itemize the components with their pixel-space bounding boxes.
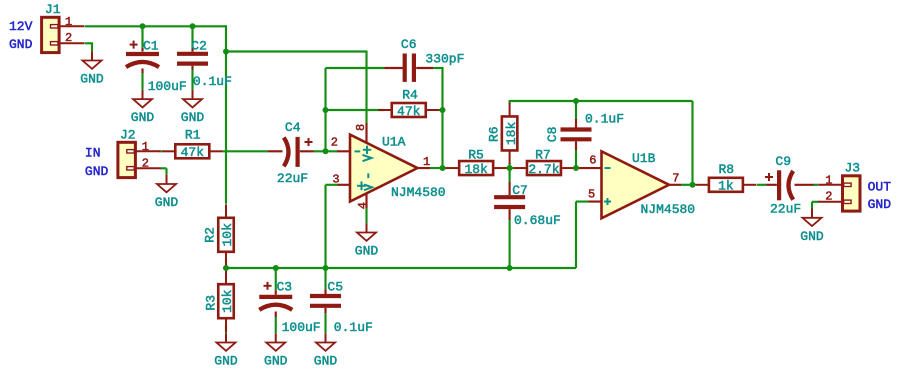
svg-text:U1B: U1B	[632, 151, 656, 166]
svg-text:GND: GND	[155, 195, 179, 210]
svg-text:0.1uF: 0.1uF	[334, 320, 373, 335]
svg-text:7: 7	[672, 172, 679, 186]
svg-text:12V: 12V	[9, 19, 33, 34]
svg-text:47k: 47k	[397, 104, 421, 119]
svg-text:2: 2	[331, 136, 338, 150]
svg-text:GND: GND	[214, 354, 238, 369]
svg-text:GND: GND	[355, 244, 379, 259]
svg-text:J3: J3	[845, 161, 861, 176]
svg-text:R6: R6	[487, 126, 502, 142]
svg-text:0.68uF: 0.68uF	[514, 213, 561, 228]
svg-text:2: 2	[65, 31, 72, 45]
svg-text:GND: GND	[314, 354, 338, 369]
svg-text:C2: C2	[191, 38, 207, 53]
svg-text:GND: GND	[800, 229, 824, 244]
svg-text:10k: 10k	[220, 289, 235, 313]
svg-text:2: 2	[142, 156, 149, 170]
svg-text:0.1uF: 0.1uF	[585, 112, 624, 127]
svg-text:GND: GND	[131, 110, 155, 125]
svg-text:GND: GND	[85, 164, 109, 179]
svg-text:R4: R4	[402, 87, 418, 102]
svg-text:NJM4580: NJM4580	[641, 202, 696, 217]
svg-text:C6: C6	[401, 37, 417, 52]
svg-text:J2: J2	[120, 127, 136, 142]
svg-text:0.1uF: 0.1uF	[193, 74, 232, 89]
svg-text:1: 1	[423, 155, 430, 169]
svg-text:3: 3	[332, 172, 339, 186]
svg-text:R2: R2	[203, 227, 218, 243]
svg-text:R3: R3	[204, 295, 219, 311]
svg-text:OUT: OUT	[868, 179, 892, 194]
svg-text:C1: C1	[143, 38, 159, 53]
svg-text:1k: 1k	[718, 179, 734, 194]
svg-text:R5: R5	[468, 148, 484, 163]
svg-text:2: 2	[825, 190, 832, 204]
svg-text:330pF: 330pF	[425, 51, 464, 66]
svg-text:R8: R8	[719, 162, 735, 177]
svg-text:C9: C9	[775, 154, 791, 169]
svg-text:GND: GND	[868, 197, 892, 212]
svg-text:NJM4580: NJM4580	[391, 185, 446, 200]
svg-text:2.7k: 2.7k	[528, 162, 559, 177]
svg-text:6: 6	[589, 153, 596, 167]
svg-text:GND: GND	[80, 72, 104, 87]
svg-text:GND: GND	[9, 37, 33, 52]
svg-text:22uF: 22uF	[277, 171, 308, 186]
svg-text:C4: C4	[285, 120, 301, 135]
svg-text:IN: IN	[85, 146, 101, 161]
svg-text:5: 5	[588, 188, 595, 202]
svg-text:1: 1	[825, 173, 832, 187]
svg-text:18k: 18k	[464, 162, 488, 177]
svg-text:47k: 47k	[181, 145, 205, 160]
svg-text:100uF: 100uF	[148, 79, 187, 94]
svg-text:C3: C3	[277, 279, 293, 294]
svg-text:C8: C8	[545, 127, 560, 143]
svg-text:1: 1	[65, 15, 72, 29]
svg-text:10k: 10k	[220, 223, 235, 247]
svg-text:1: 1	[142, 140, 149, 154]
svg-text:C5: C5	[327, 279, 343, 294]
svg-text:18k: 18k	[504, 122, 519, 146]
svg-text:R1: R1	[185, 127, 201, 142]
svg-text:8: 8	[354, 124, 368, 131]
svg-text:C7: C7	[512, 183, 528, 198]
svg-text:22uF: 22uF	[770, 201, 801, 216]
svg-text:J1: J1	[45, 2, 61, 17]
svg-text:4: 4	[356, 202, 370, 209]
svg-text:GND: GND	[264, 354, 288, 369]
svg-text:GND: GND	[181, 110, 205, 125]
svg-text:R7: R7	[535, 148, 551, 163]
svg-text:U1A: U1A	[382, 135, 406, 150]
svg-text:100uF: 100uF	[282, 320, 321, 335]
